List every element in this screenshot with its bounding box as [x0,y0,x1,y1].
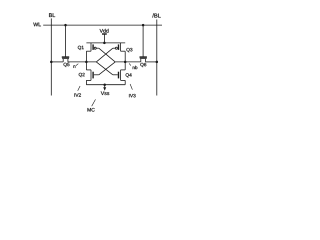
node Vss-rail junction [103,83,106,86]
transistor Q4 channel [120,70,122,81]
transistor Q2 source arm [86,69,91,71]
transistor Q2 drain arm [86,79,91,81]
label IV3 [129,94,136,97]
wire Q4 gate stub [113,74,118,76]
wire Vdd tap [103,35,105,43]
wire cross-couple Q2 gate to node nb [99,62,115,75]
label IV2 [74,93,81,96]
transistor Q3 channel [120,43,122,51]
wire Q6 to /BL [146,61,157,63]
transistor Q2 gate bar [92,72,94,79]
wire cross-couple Q4 gate to node n [96,62,113,75]
wire Q4 to Vss rail [124,80,126,84]
transistor Q6 gate bar [140,56,147,58]
node WL-Q6 gate junction [142,24,145,27]
leader arrow IV3 [130,84,132,90]
wire Q5 gate from WL [65,25,67,56]
wire Q6 gate from WL [142,25,144,56]
leader arrow IV2 [78,86,80,91]
transistor Q5 gate bar [62,56,69,58]
node n junction dot [85,61,88,64]
wire Vdd top rail [86,42,125,44]
label Q3 [126,48,132,52]
power Vdd bar symbol [102,33,107,35]
transistor Q1 gate bar [92,44,94,50]
label Q4 [126,73,132,77]
node WL-Q5 gate junction [64,24,67,27]
ground Vss stem [104,85,106,88]
transistor Q6 source leg [140,59,142,62]
transistor Q1 gate bubble [94,47,96,49]
wire Q3 gate stub [113,47,116,49]
transistor Q6 channel [140,58,147,60]
transistor Q4 source arm [121,69,126,71]
transistor Q3 drain arm [121,50,126,52]
wire BL to Q5 [51,61,63,63]
wire BL bit line [50,18,52,95]
node BL-Q5 junction [50,61,53,64]
node Q6-/BL junction [156,61,159,64]
wire Q2 to Vss rail [85,80,87,84]
wire /BL complementary bit line [156,20,158,96]
label Q2 [79,73,85,77]
leader arrow node nb [129,63,131,65]
transistor Q4 drain arm [121,79,126,81]
wire Vss bottom rail [86,84,125,86]
transistor Q2 channel [90,70,92,81]
label WL [33,23,41,27]
label Q6 [140,63,146,67]
transistor Q6 drain leg [145,59,147,62]
node nb junction dot [124,61,127,64]
transistor Q5 channel [62,58,69,60]
label Vdd [100,29,109,33]
label /BL [152,13,160,17]
wire Q3 drain to node nb column [124,51,126,70]
label Q5 [64,63,70,67]
transistor Q3 gate bar [118,44,120,50]
leader arrow MC [92,99,96,106]
wire Q2 gate stub [94,74,99,76]
label BL [49,13,55,17]
transistor Q3 gate bubble [115,47,117,49]
label Q1 [78,46,84,50]
transistor Q4 gate bar [118,72,120,79]
transistor Q1 channel [90,43,92,51]
transistor Q5 drain leg [67,59,69,62]
label MC [88,108,95,112]
label Vss [101,91,109,95]
wire Q1 drain to node n column [85,51,87,70]
transistor Q5 source leg [62,59,64,62]
node Vdd-rail junction [103,42,106,45]
leader arrow node n [76,64,78,66]
wire node n from Q5 to cell [68,61,96,63]
ground Vss arrowhead [103,87,106,91]
wire WL word line [43,24,162,26]
wire Q1 gate stub [96,47,99,49]
transistor Q1 drain arm [86,50,91,52]
label n [73,65,75,67]
label nb [133,66,138,69]
wire node nb from cell to Q6 [115,61,141,63]
wire cross-couple Q1 gate to node nb [99,48,115,62]
wire cross-couple Q3 gate to node n [96,48,113,62]
